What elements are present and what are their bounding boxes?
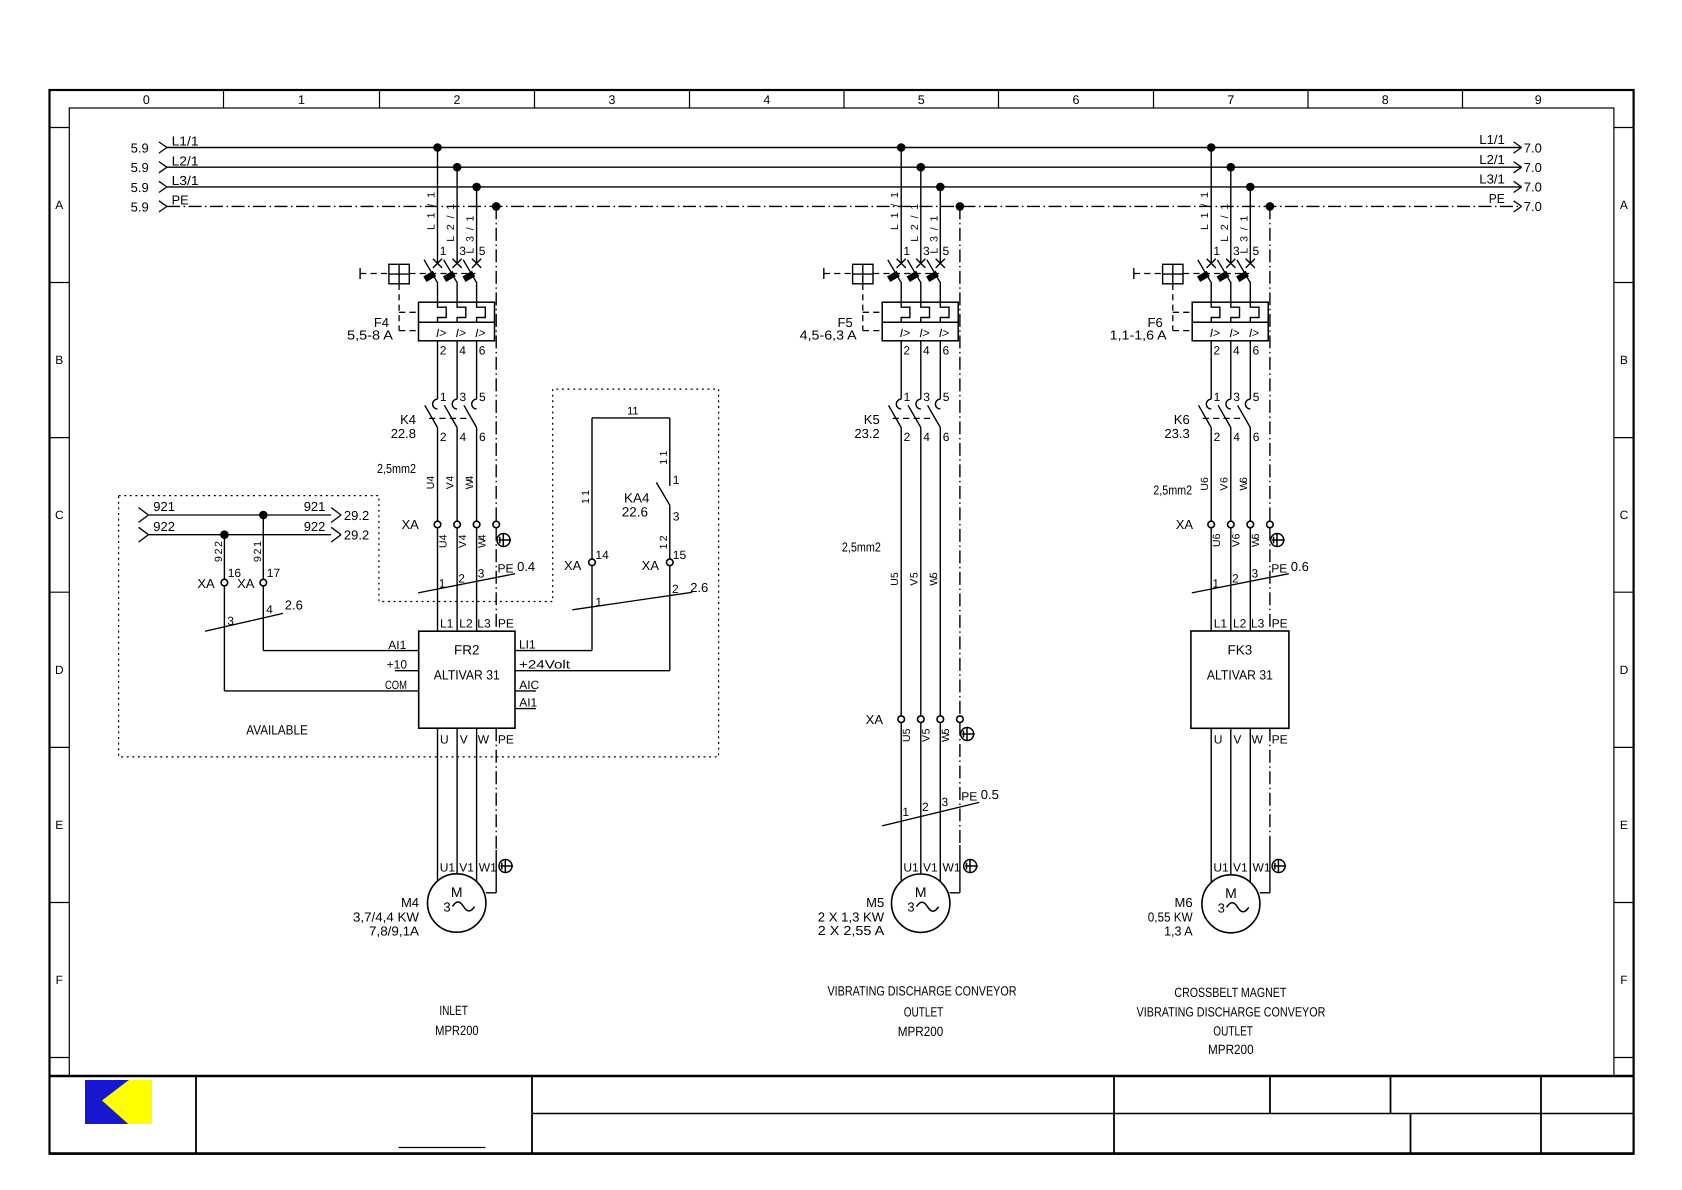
wire 11 top bar xyxy=(592,417,670,419)
terminal XA PE branch 1 xyxy=(493,521,500,528)
svg-text:U6: U6 xyxy=(1211,533,1223,547)
svg-text:M6: M6 xyxy=(1175,895,1193,910)
terminal XA 16 xyxy=(221,579,228,586)
svg-text:CROSSBELT MAGNET: CROSSBELT MAGNET xyxy=(1174,985,1286,1000)
svg-text:V4: V4 xyxy=(445,476,457,490)
title block underline xyxy=(399,1147,486,1149)
svg-text:7.0: 7.0 xyxy=(1524,199,1542,214)
svg-text:3,7/4,4 KW: 3,7/4,4 KW xyxy=(353,910,420,925)
svg-text:1: 1 xyxy=(440,390,447,404)
svg-text:AI1: AI1 xyxy=(519,696,537,710)
svg-text:W5: W5 xyxy=(928,572,940,586)
svg-text:F: F xyxy=(56,973,63,987)
svg-text:E: E xyxy=(55,818,63,832)
svg-text:W6: W6 xyxy=(1250,533,1262,547)
svg-text:XA: XA xyxy=(1176,517,1194,532)
cable marker 0.4 xyxy=(418,574,515,593)
svg-text:2: 2 xyxy=(903,344,910,358)
svg-text:3: 3 xyxy=(1233,244,1240,258)
svg-text:1,1-1,6 A: 1,1-1,6 A xyxy=(1110,328,1167,343)
svg-text:FR2: FR2 xyxy=(454,643,480,658)
svg-text:4: 4 xyxy=(266,603,273,617)
svg-text:B: B xyxy=(1620,353,1628,367)
svg-text:PE: PE xyxy=(1271,562,1287,576)
svg-text:U: U xyxy=(440,733,449,747)
svg-text:D: D xyxy=(55,663,64,677)
contactor K6 poles xyxy=(1206,399,1211,409)
svg-text:3: 3 xyxy=(673,509,680,523)
title block xyxy=(50,1075,1634,1078)
svg-text:L3: L3 xyxy=(1251,616,1265,630)
svg-text:MPR200: MPR200 xyxy=(1208,1042,1254,1057)
column number header band xyxy=(143,93,1542,107)
svg-text:6: 6 xyxy=(1253,430,1260,444)
svg-text:AVAILABLE: AVAILABLE xyxy=(246,723,307,738)
svg-text:921: 921 xyxy=(153,499,175,514)
svg-text:3: 3 xyxy=(227,614,234,628)
svg-text:PE: PE xyxy=(172,193,189,208)
svg-text:1: 1 xyxy=(1213,244,1220,258)
svg-text:1: 1 xyxy=(903,244,910,258)
svg-text:15: 15 xyxy=(673,548,687,562)
svg-text:M5: M5 xyxy=(866,895,884,910)
svg-text:U6: U6 xyxy=(1199,477,1211,491)
svg-text:L1/1: L1/1 xyxy=(1479,132,1505,147)
branch 2 rail junction dots and drop wires xyxy=(897,143,906,152)
svg-text:3: 3 xyxy=(609,93,616,107)
power rail L2/1 xyxy=(167,166,1521,168)
svg-text:K5: K5 xyxy=(864,412,880,427)
svg-text:AIC: AIC xyxy=(519,678,539,692)
svg-text:5,5-8 A: 5,5-8 A xyxy=(347,328,393,343)
branch 3 wires FK3 to motor xyxy=(1210,728,1212,881)
wire 921 drop to XA:17 and AI1 xyxy=(262,515,264,579)
svg-text:M: M xyxy=(451,884,463,900)
svg-text:+10: +10 xyxy=(387,658,408,672)
svg-text:M4: M4 xyxy=(401,895,419,910)
svg-text:3: 3 xyxy=(923,244,930,258)
svg-text:7,8/9,1A: 7,8/9,1A xyxy=(369,924,419,939)
branch 1 wires FR2 to motor xyxy=(437,728,439,881)
svg-text:U1: U1 xyxy=(1213,861,1229,875)
svg-text:OUTLET: OUTLET xyxy=(1213,1023,1253,1038)
svg-text:V5: V5 xyxy=(908,572,920,586)
svg-text:6: 6 xyxy=(1253,344,1260,358)
svg-text:14: 14 xyxy=(595,548,609,562)
svg-text:L2: L2 xyxy=(459,616,473,630)
svg-text:W4: W4 xyxy=(464,476,476,490)
dotted enclosure outline xyxy=(119,389,719,757)
branch 1 PE vertical wire xyxy=(495,206,497,521)
svg-text:A: A xyxy=(1620,198,1628,212)
svg-text:L3/1: L3/1 xyxy=(1479,172,1505,187)
svg-text:U5: U5 xyxy=(901,728,913,742)
svg-text:2,5mm2: 2,5mm2 xyxy=(1153,482,1192,497)
breaker F4 mechanism linkage xyxy=(359,268,361,279)
svg-text:22.8: 22.8 xyxy=(391,426,416,441)
svg-text:C: C xyxy=(1620,508,1629,522)
svg-text:V4: V4 xyxy=(457,534,469,548)
svg-text:5: 5 xyxy=(943,244,950,258)
svg-text:921: 921 xyxy=(252,541,264,562)
terminal XA PE branch 3 xyxy=(1267,521,1274,528)
svg-text:PE: PE xyxy=(498,733,514,747)
svg-text:K4: K4 xyxy=(400,412,416,427)
relay contact KA4 xyxy=(669,418,671,486)
svg-text:6: 6 xyxy=(479,344,486,358)
branch 3 wires contactor to XA xyxy=(1210,428,1212,522)
branch 3 PE vertical wire xyxy=(1269,206,1271,521)
node junction on 922 xyxy=(220,530,229,539)
overload F5 pole 1 heater element xyxy=(901,302,910,322)
power rail L3/1 xyxy=(167,186,1521,188)
svg-text:4: 4 xyxy=(459,344,466,358)
svg-text:3: 3 xyxy=(1218,900,1225,915)
branch 1 wires contactor to XA xyxy=(437,428,439,522)
svg-text:1: 1 xyxy=(902,805,909,819)
svg-text:V6: V6 xyxy=(1231,533,1243,547)
branch 1 PE junction dot and PE drop wire xyxy=(492,202,501,211)
svg-text:C: C xyxy=(55,508,64,522)
svg-text:V1: V1 xyxy=(1233,861,1248,875)
svg-text:4: 4 xyxy=(923,344,930,358)
contactor K5 poles xyxy=(896,399,901,409)
svg-text:1: 1 xyxy=(1214,390,1221,404)
motor M5 xyxy=(892,874,950,932)
overload F5 pole 2 heater element xyxy=(921,302,930,322)
svg-text:COM: COM xyxy=(385,678,407,692)
motor M6 xyxy=(1202,875,1260,933)
svg-text:922: 922 xyxy=(153,519,175,534)
svg-text:2,5mm2: 2,5mm2 xyxy=(377,461,416,476)
overload F5 pole 3 heater element xyxy=(940,302,949,322)
svg-text:5: 5 xyxy=(479,390,486,404)
branch 2 wires contactor to XA xyxy=(900,428,902,716)
svg-text:PE: PE xyxy=(498,616,514,630)
svg-text:M: M xyxy=(915,884,927,900)
protective earth symbol branch 3 motor xyxy=(1272,860,1286,873)
svg-text:0.4: 0.4 xyxy=(517,559,535,574)
svg-text:L3/1: L3/1 xyxy=(172,173,199,188)
svg-text:L1: L1 xyxy=(1214,616,1228,630)
svg-text:29.2: 29.2 xyxy=(344,508,369,523)
svg-text:1: 1 xyxy=(673,473,680,487)
svg-text:6: 6 xyxy=(943,430,950,444)
svg-text:22.6: 22.6 xyxy=(622,504,648,519)
svg-text:AI1: AI1 xyxy=(388,638,406,652)
svg-text:W5: W5 xyxy=(940,728,952,742)
svg-text:W1: W1 xyxy=(943,861,961,875)
svg-text:7.0: 7.0 xyxy=(1524,180,1542,195)
svg-text:5: 5 xyxy=(918,93,925,107)
svg-text:VIBRATING DISCHARGE CONVEYOR: VIBRATING DISCHARGE CONVEYOR xyxy=(828,984,1017,999)
svg-text:7: 7 xyxy=(1227,93,1234,107)
svg-text:3: 3 xyxy=(459,244,466,258)
svg-text:V6: V6 xyxy=(1218,477,1230,491)
signal line 921 xyxy=(149,514,331,516)
terminal XA 17 xyxy=(260,579,267,586)
svg-text:U1: U1 xyxy=(440,861,456,875)
svg-text:XA: XA xyxy=(197,576,215,591)
svg-text:V: V xyxy=(1233,733,1241,747)
LI1 wire to FR2 xyxy=(515,650,592,652)
svg-text:5.9: 5.9 xyxy=(131,180,149,195)
svg-text:2: 2 xyxy=(904,430,911,444)
svg-text:L2: L2 xyxy=(1233,616,1247,630)
protective earth symbol branch 3 XA xyxy=(1271,534,1285,547)
svg-text:2: 2 xyxy=(440,344,447,358)
overload F4 pole 2 heater element xyxy=(457,302,466,322)
svg-text:2: 2 xyxy=(1213,344,1220,358)
svg-text:INLET: INLET xyxy=(439,1003,468,1018)
svg-text:PE: PE xyxy=(1272,733,1288,747)
svg-text:XA: XA xyxy=(237,576,255,591)
cable marker 0.6 xyxy=(1192,574,1289,593)
wire 11 left leg xyxy=(591,418,593,559)
power rail L1/1 xyxy=(167,147,1521,149)
node junction on 921 xyxy=(259,511,268,520)
svg-text:2: 2 xyxy=(1214,430,1221,444)
svg-text:1: 1 xyxy=(439,577,446,591)
svg-text:5: 5 xyxy=(1253,390,1260,404)
branch 2 PE vertical wire xyxy=(959,206,961,716)
company logo xyxy=(85,1080,151,1124)
svg-text:W4: W4 xyxy=(476,534,488,548)
svg-text:1,3 A: 1,3 A xyxy=(1164,924,1193,939)
svg-text:3: 3 xyxy=(1233,390,1240,404)
svg-text:5.9: 5.9 xyxy=(131,141,149,156)
svg-text:2: 2 xyxy=(454,93,461,107)
branch 3 rail junction dots and drop wires xyxy=(1207,143,1216,152)
svg-text:23.3: 23.3 xyxy=(1164,426,1189,441)
svg-text:0.5: 0.5 xyxy=(981,787,999,802)
svg-text:1: 1 xyxy=(440,244,447,258)
svg-text:1: 1 xyxy=(298,93,305,107)
svg-text:1: 1 xyxy=(904,390,911,404)
svg-text:3: 3 xyxy=(907,900,914,915)
svg-text:4: 4 xyxy=(763,93,770,107)
svg-text:L2/1: L2/1 xyxy=(172,153,199,168)
overload F6 pole 3 heater element xyxy=(1250,302,1259,322)
svg-text:6: 6 xyxy=(1073,93,1080,107)
breaker F6 mechanism linkage xyxy=(1133,268,1135,279)
svg-text:U4: U4 xyxy=(437,534,449,548)
svg-text:W6: W6 xyxy=(1238,477,1250,491)
protective earth symbol branch 1 motor xyxy=(499,860,513,873)
svg-text:L1/1: L1/1 xyxy=(172,134,199,149)
svg-text:MPR200: MPR200 xyxy=(435,1023,479,1038)
svg-text:3: 3 xyxy=(443,900,450,915)
svg-text:KA4: KA4 xyxy=(624,491,650,506)
svg-text:PE: PE xyxy=(1272,616,1288,630)
svg-text:5: 5 xyxy=(479,244,486,258)
svg-text:2 X 1,3 KW: 2 X 1,3 KW xyxy=(818,909,885,924)
overload relay F4 box xyxy=(419,302,495,341)
svg-text:4: 4 xyxy=(460,430,467,444)
protective earth symbol branch 2 XA xyxy=(961,728,975,741)
svg-text:XA: XA xyxy=(866,712,884,727)
circuit breaker F6 disconnect poles xyxy=(1207,259,1216,268)
overload F6 pole 2 heater element xyxy=(1231,302,1240,322)
branch 1 rail junction dots and drop wires xyxy=(433,143,442,152)
svg-text:V: V xyxy=(460,733,468,747)
svg-text:5.9: 5.9 xyxy=(131,160,149,175)
svg-text:2,5mm2: 2,5mm2 xyxy=(842,540,881,555)
svg-text:17: 17 xyxy=(267,566,281,580)
terminal XA PE branch 2 xyxy=(957,716,964,723)
svg-text:LI1: LI1 xyxy=(519,638,536,652)
svg-text:0: 0 xyxy=(143,93,150,107)
svg-text:3: 3 xyxy=(478,567,485,581)
svg-text:5: 5 xyxy=(943,390,950,404)
frequency drive FR2 ALTIVAR 31 xyxy=(419,631,515,728)
overload F6 pole 1 heater element xyxy=(1211,302,1220,322)
circuit breaker F5 disconnect poles xyxy=(897,259,906,268)
svg-text:XA: XA xyxy=(564,558,582,573)
svg-text:23.2: 23.2 xyxy=(854,426,879,441)
svg-text:7.0: 7.0 xyxy=(1524,140,1542,155)
svg-text:2.6: 2.6 xyxy=(285,598,303,613)
signal line 922 xyxy=(149,534,331,536)
overload relay F5 box xyxy=(882,302,958,341)
motor M4 xyxy=(428,874,486,932)
svg-text:2: 2 xyxy=(440,430,447,444)
svg-text:V5: V5 xyxy=(921,728,933,742)
contactor K4 poles xyxy=(433,399,438,409)
svg-text:ALTIVAR 31: ALTIVAR 31 xyxy=(1207,667,1273,682)
svg-text:922: 922 xyxy=(213,541,225,562)
svg-text:L3: L3 xyxy=(477,616,491,630)
svg-text:D: D xyxy=(1620,663,1629,677)
svg-text:0,55 KW: 0,55 KW xyxy=(1148,910,1193,925)
overload F4 pole 3 heater element xyxy=(477,302,486,322)
protective earth symbol branch 2 motor xyxy=(964,860,978,873)
overload relay F6 box xyxy=(1192,302,1268,341)
svg-text:W: W xyxy=(1252,733,1264,747)
svg-text:2: 2 xyxy=(922,800,929,814)
svg-text:PE: PE xyxy=(1489,191,1505,206)
cable marker 2.6 (KA4 pair) xyxy=(572,592,692,610)
svg-text:W: W xyxy=(478,733,490,747)
svg-text:E: E xyxy=(1620,818,1628,832)
branch 3 PE junction dot and PE drop wire xyxy=(1266,202,1275,211)
svg-text:A: A xyxy=(55,198,63,212)
svg-text:U4: U4 xyxy=(425,476,437,490)
svg-text:2.6: 2.6 xyxy=(690,580,708,595)
svg-text:4: 4 xyxy=(1233,430,1240,444)
svg-text:2: 2 xyxy=(458,572,465,586)
row letter bands left and right xyxy=(50,127,70,129)
svg-text:922: 922 xyxy=(304,519,326,534)
svg-text:K6: K6 xyxy=(1174,412,1190,427)
power rail PE xyxy=(167,205,1521,207)
svg-text:6: 6 xyxy=(479,430,486,444)
svg-text:L1: L1 xyxy=(440,616,454,630)
svg-text:ALTIVAR 31: ALTIVAR 31 xyxy=(434,667,500,682)
svg-text:3: 3 xyxy=(460,390,467,404)
terminal XA 14 xyxy=(589,559,596,566)
svg-text:L2/1: L2/1 xyxy=(1479,152,1505,167)
drawing frame inner border xyxy=(69,108,1614,1076)
svg-text:2: 2 xyxy=(1232,572,1239,586)
svg-text:4: 4 xyxy=(1233,344,1240,358)
svg-text:921: 921 xyxy=(304,499,326,514)
svg-text:5.9: 5.9 xyxy=(131,199,149,214)
svg-text:2 X 2,55 A: 2 X 2,55 A xyxy=(818,923,885,938)
frequency drive FK3 ALTIVAR 31 xyxy=(1191,631,1289,728)
svg-text:9: 9 xyxy=(1535,93,1542,107)
svg-text:7.0: 7.0 xyxy=(1524,160,1542,175)
svg-text:+24Volt: +24Volt xyxy=(519,658,571,672)
svg-text:B: B xyxy=(55,353,63,367)
svg-text:VIBRATING DISCHARGE CONVEYOR: VIBRATING DISCHARGE CONVEYOR xyxy=(1137,1004,1326,1019)
circuit breaker F4 disconnect poles xyxy=(433,259,442,268)
svg-text:W1: W1 xyxy=(1253,861,1271,875)
svg-text:11: 11 xyxy=(627,406,638,418)
svg-text:3: 3 xyxy=(942,795,949,809)
svg-text:6: 6 xyxy=(943,344,950,358)
svg-text:U1: U1 xyxy=(903,861,919,875)
svg-text:3: 3 xyxy=(923,390,930,404)
+24Volt wire to FR2 xyxy=(515,670,670,672)
cable marker 0.5 xyxy=(882,802,979,826)
svg-text:3: 3 xyxy=(1252,567,1259,581)
svg-text:1: 1 xyxy=(595,595,602,609)
svg-text:W1: W1 xyxy=(479,861,497,875)
svg-text:V1: V1 xyxy=(459,861,474,875)
svg-text:4: 4 xyxy=(923,430,930,444)
svg-text:PE: PE xyxy=(961,790,977,804)
overload F4 pole 1 heater element xyxy=(438,302,447,322)
svg-text:U5: U5 xyxy=(889,572,901,586)
svg-text:8: 8 xyxy=(1382,93,1389,107)
svg-text:XA: XA xyxy=(401,517,419,532)
svg-text:PE: PE xyxy=(498,562,514,576)
svg-text:M: M xyxy=(1225,885,1237,901)
svg-text:FK3: FK3 xyxy=(1228,643,1253,658)
svg-text:V1: V1 xyxy=(923,861,938,875)
svg-text:4,5-6,3 A: 4,5-6,3 A xyxy=(800,328,857,343)
svg-text:F: F xyxy=(1620,973,1627,987)
svg-text:U: U xyxy=(1214,733,1223,747)
svg-text:29.2: 29.2 xyxy=(344,528,369,543)
protective earth symbol branch 1 XA xyxy=(497,534,511,547)
svg-text:XA: XA xyxy=(642,558,660,573)
svg-text:MPR200: MPR200 xyxy=(898,1024,944,1039)
svg-text:2: 2 xyxy=(672,582,679,596)
svg-text:1: 1 xyxy=(1212,577,1219,591)
cable marker 2.6 (control pair) xyxy=(205,613,283,631)
branch 2 PE junction dot and PE drop wire xyxy=(956,202,965,211)
terminal XA 15 xyxy=(667,559,674,566)
wire 922 drop to XA:16 and COM xyxy=(223,535,225,580)
svg-text:OUTLET: OUTLET xyxy=(904,1005,944,1020)
svg-text:5: 5 xyxy=(1253,244,1260,258)
svg-text:0.6: 0.6 xyxy=(1291,559,1309,574)
breaker F5 mechanism linkage xyxy=(823,268,825,279)
